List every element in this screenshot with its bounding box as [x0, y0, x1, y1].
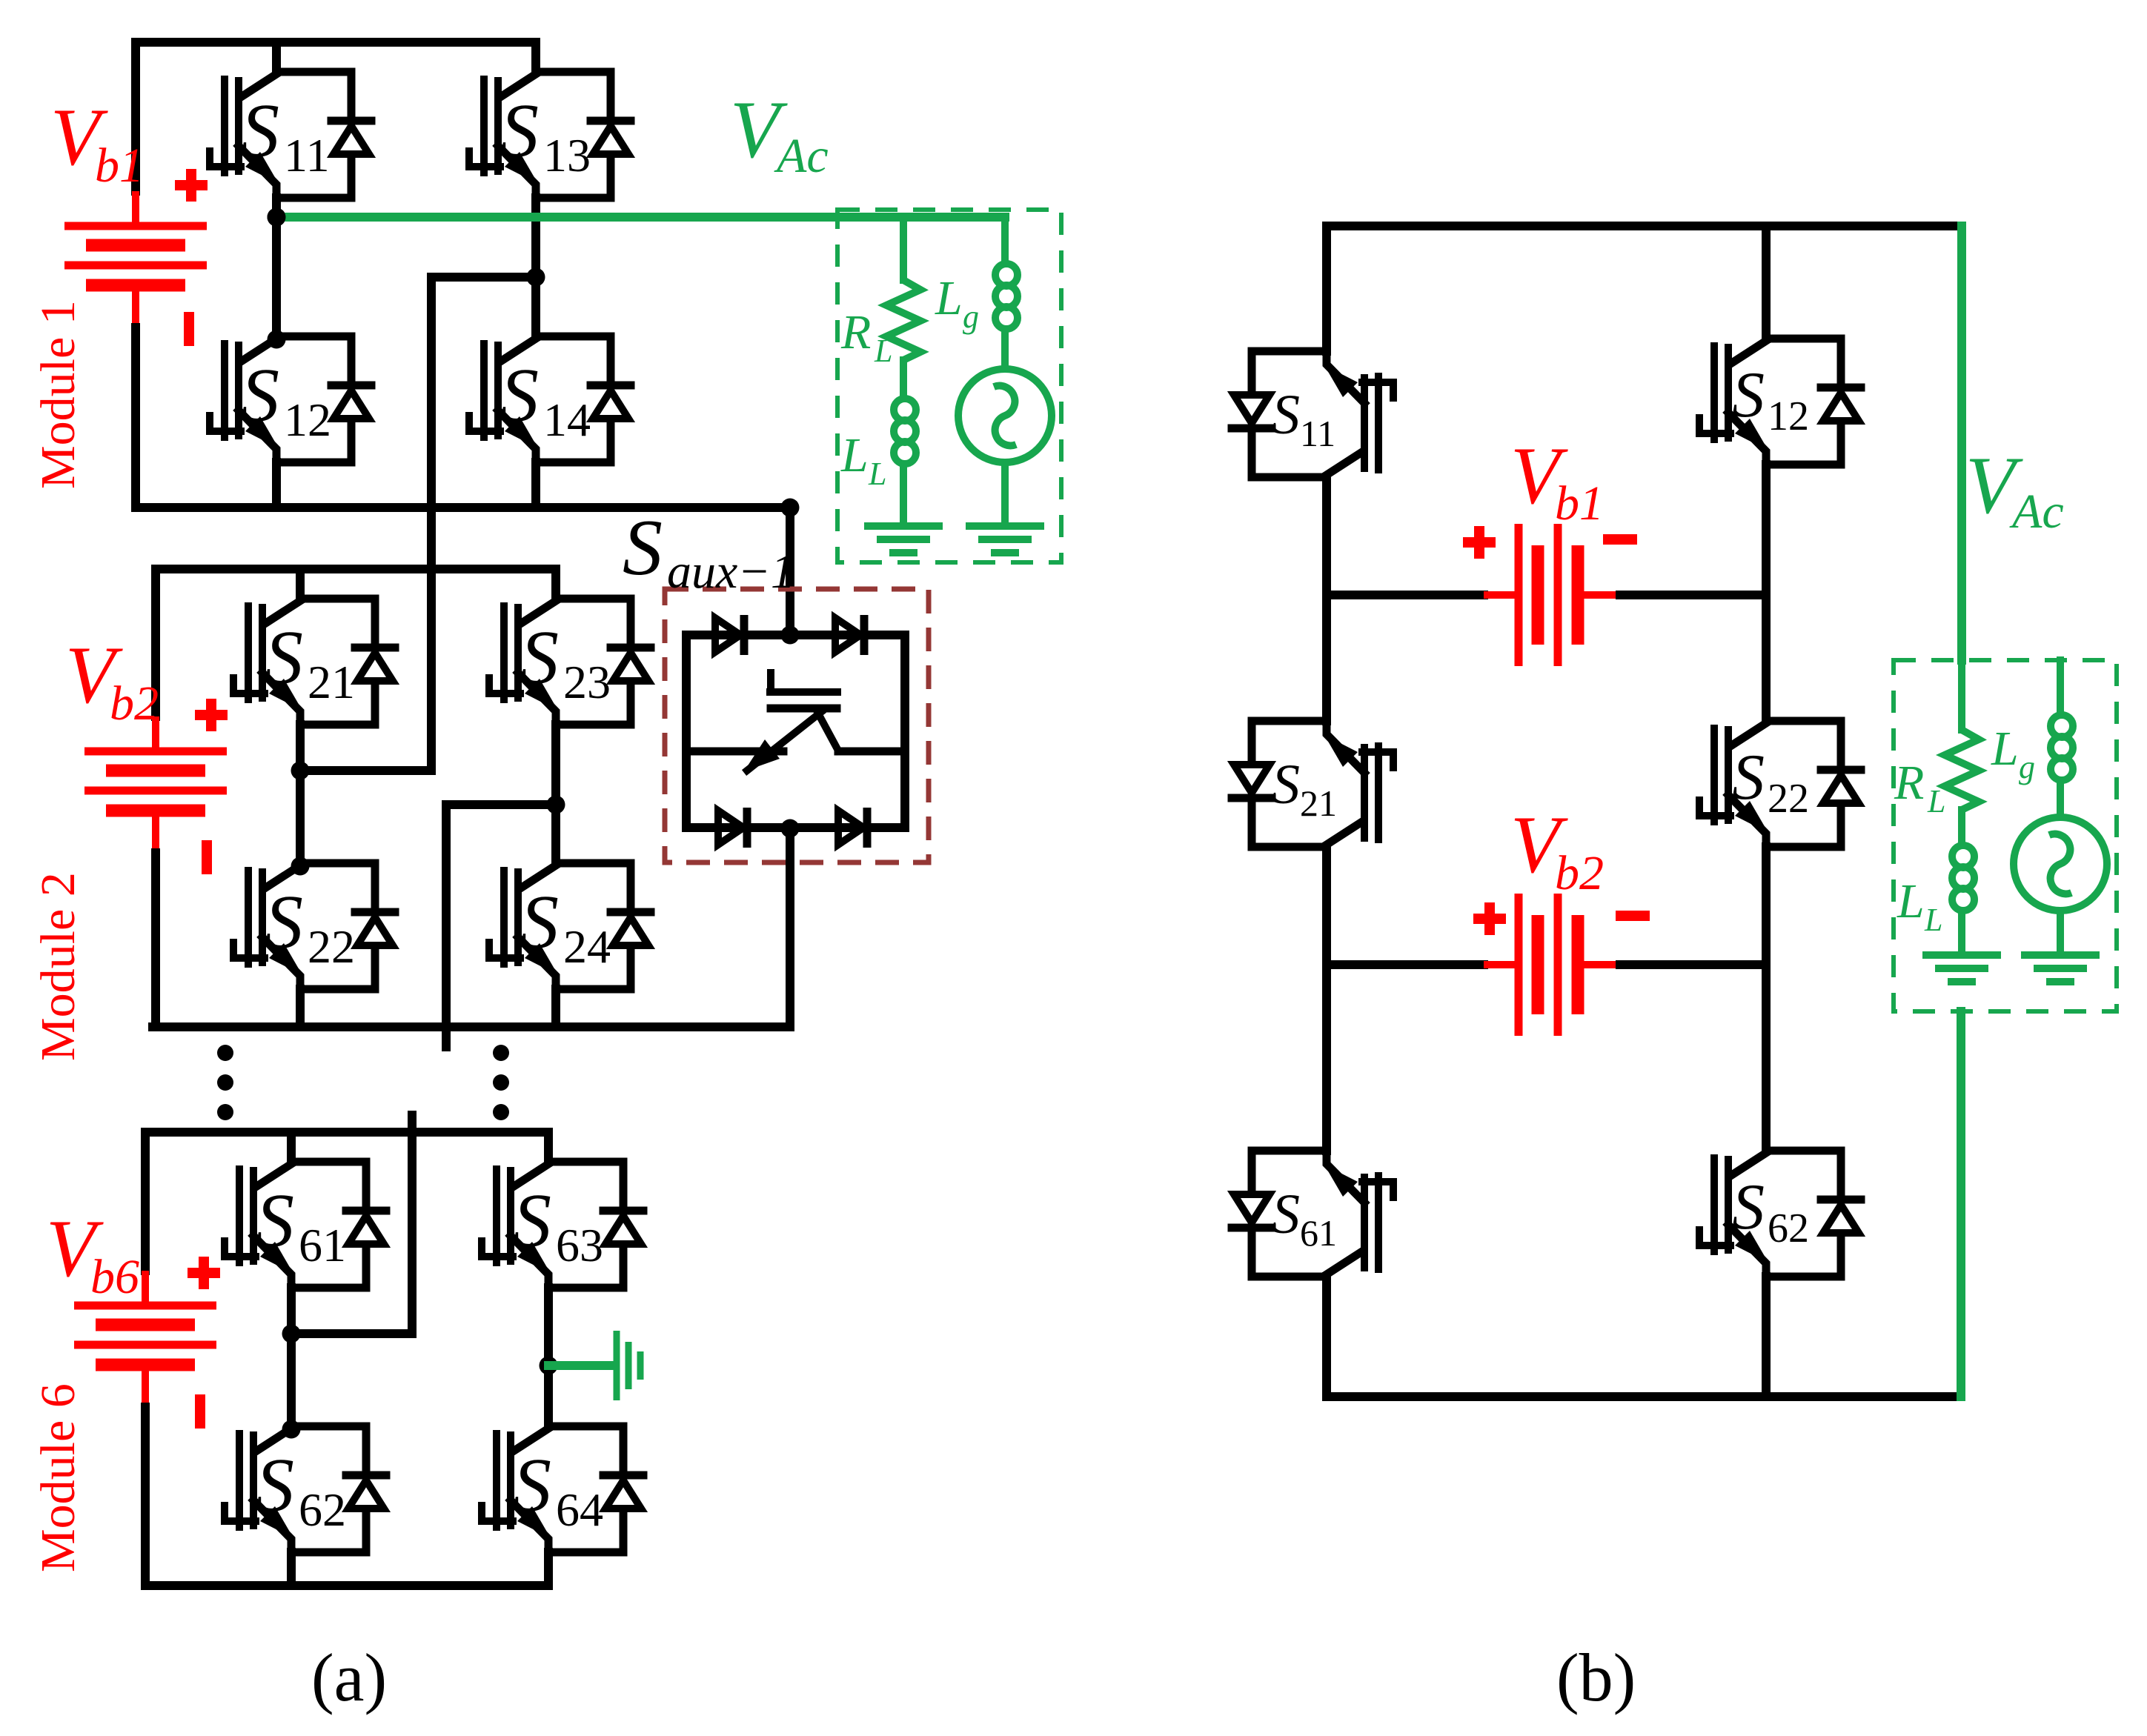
- wire (green): between R_L and L_L: [900, 360, 907, 393]
- svg-text:S: S: [1272, 754, 1300, 816]
- svg-text:S: S: [241, 353, 279, 438]
- transistor S61 (IGBT with antiparallel diode): [1232, 1151, 1393, 1277]
- wire: module 6 top rail: [145, 1128, 548, 1137]
- wire (green): source to ground (b): [2057, 911, 2064, 952]
- svg-text:64: 64: [556, 1483, 603, 1536]
- wire (green): L_g branch top: [1001, 217, 1009, 258]
- wire: module 2 top rail: [156, 565, 556, 573]
- svg-text:62: 62: [1768, 1205, 1809, 1251]
- svg-text:61: 61: [1300, 1212, 1337, 1254]
- ground (module 6 neutral): [617, 1331, 640, 1400]
- transistor S61 (IGBT with antiparallel diode): [225, 1162, 386, 1288]
- svg-text:12: 12: [1768, 393, 1809, 439]
- box: load dashed border (b): [1894, 660, 2117, 1011]
- svg-text:b2: b2: [1555, 846, 1604, 900]
- svg-text:23: 23: [563, 656, 611, 708]
- wire: [551, 725, 560, 863]
- svg-text:S: S: [1732, 742, 1765, 814]
- wire: module 1 left rail upper: [131, 42, 140, 191]
- svg-text:R: R: [840, 305, 871, 359]
- wire: battery 1 row right: [1620, 591, 1766, 599]
- svg-text:11: 11: [1300, 413, 1335, 454]
- svg-text:S: S: [265, 615, 303, 700]
- wire: [551, 569, 560, 599]
- svg-text:Ac: Ac: [774, 129, 829, 183]
- transistor S63 (IGBT with antiparallel diode): [482, 1162, 643, 1288]
- source V_Ac AC source: [958, 369, 1052, 462]
- transistor S62 (IGBT with antiparallel diode): [1699, 1151, 1861, 1277]
- ellipsis dot: [493, 1045, 509, 1061]
- battery Vb6: [74, 1271, 216, 1407]
- svg-text:62: 62: [299, 1483, 346, 1536]
- wire (green): R_L to L_L (b): [1958, 810, 1965, 839]
- wire: [272, 198, 281, 336]
- wire: battery 2 row right: [1620, 960, 1766, 969]
- svg-text:R: R: [1894, 756, 1924, 810]
- wire: [296, 569, 305, 599]
- diode aux bridge top-left: [715, 615, 744, 655]
- wire (green): R_L branch top: [900, 217, 907, 280]
- ground (b source branch): [2021, 955, 2100, 982]
- wire (green): source to ground: [1001, 462, 1009, 523]
- label - (b Vb2): [1616, 911, 1650, 921]
- wire: battery 1 row left: [1327, 591, 1484, 599]
- ellipsis dot: [217, 1045, 233, 1061]
- svg-text:S: S: [520, 615, 559, 700]
- node module1 output A: [268, 208, 286, 227]
- wire (green): load box to bottom rail (b): [1957, 1011, 1965, 1397]
- svg-text:13: 13: [543, 129, 591, 182]
- node module6 right midpoint (grounded): [540, 1357, 558, 1375]
- wire (green): L_g to source: [1001, 338, 1009, 369]
- node module1 negative rail to aux: [781, 499, 800, 517]
- node S12 collector: [268, 330, 286, 349]
- svg-text:11: 11: [284, 129, 330, 182]
- box: aux switch dashed border: [665, 589, 929, 862]
- svg-text:S: S: [513, 1443, 551, 1528]
- svg-text:63: 63: [556, 1219, 603, 1271]
- svg-text:L: L: [868, 456, 886, 492]
- node aux bridge bottom: [781, 819, 800, 838]
- svg-text:S: S: [256, 1443, 294, 1528]
- wire: aux bridge square: [686, 635, 905, 828]
- wire: module 1 top rail: [136, 38, 536, 47]
- inductor L_L (b): [1952, 839, 1974, 919]
- box: load dashed border (a): [837, 210, 1061, 562]
- node S62 collector: [282, 1420, 301, 1439]
- ellipsis dot: [217, 1074, 233, 1091]
- battery Vb1: [64, 191, 207, 327]
- transistor S12 (IGBT with antiparallel diode): [210, 336, 371, 462]
- wire: aux bottom feed: [786, 828, 794, 1027]
- transistor S21 (IGBT with antiparallel diode): [1232, 721, 1393, 847]
- wire (green): L_g to source (b): [2057, 789, 2064, 817]
- wire: link module1 right midpoint to module2 left midpoint: [300, 277, 536, 771]
- svg-text:L: L: [1927, 783, 1945, 819]
- wire: (b) right leg: [1762, 226, 1771, 1397]
- diode aux bridge bottom-right: [838, 808, 867, 848]
- svg-text:21: 21: [1300, 782, 1337, 824]
- ellipsis dot: [217, 1104, 233, 1120]
- wire: module 1 left rail lower: [131, 327, 140, 508]
- wire: aux top feed: [786, 508, 794, 635]
- svg-text:S: S: [623, 504, 663, 592]
- wire: module 2 bottom rail: [153, 1022, 790, 1031]
- ellipsis dot: [493, 1074, 509, 1091]
- wire: [544, 1288, 553, 1426]
- svg-text:S: S: [1732, 1171, 1765, 1243]
- wire (green): R_L branch top (b): [1958, 660, 1965, 730]
- svg-text:b2: b2: [110, 676, 159, 731]
- transistor S11 (IGBT with antiparallel diode): [210, 72, 371, 198]
- inductor L_g (b): [2051, 709, 2073, 789]
- svg-text:24: 24: [563, 920, 611, 973]
- wire: [272, 462, 281, 508]
- wire: link module6 left midpoint up to module 5: [291, 1115, 412, 1334]
- svg-text:S: S: [1732, 359, 1765, 431]
- transistor S_aux-1 IGBT (rotated): [686, 673, 905, 771]
- wire: module 6 left rail upper: [141, 1132, 150, 1271]
- node module2 left midpoint: [291, 762, 310, 780]
- wire: [544, 1132, 553, 1162]
- wire: [531, 198, 540, 336]
- battery Vb2: [84, 716, 227, 853]
- transistor S22 (IGBT with antiparallel diode): [233, 863, 395, 989]
- svg-text:Module 1: Module 1: [31, 300, 85, 489]
- label - (Vb6): [195, 1394, 205, 1429]
- wire (green): L_L to ground (b): [1958, 919, 1965, 952]
- svg-text:L: L: [1897, 874, 1925, 928]
- svg-text:14: 14: [543, 393, 591, 446]
- diode aux bridge bottom-left: [718, 808, 747, 848]
- wire: (b) bottom rail: [1327, 1392, 1961, 1401]
- svg-text:L: L: [874, 333, 892, 369]
- label - (Vb1): [184, 312, 194, 346]
- wire: module 2 left rail lower: [151, 853, 160, 1027]
- wire (green): output vertical (b): [1957, 226, 1966, 660]
- svg-text:b1: b1: [95, 139, 144, 193]
- svg-text:(b): (b): [1556, 1640, 1636, 1715]
- wire: link module2 right midpoint down to module 3: [446, 805, 556, 1047]
- svg-text:S: S: [1272, 1183, 1300, 1246]
- wire (green): L_L to ground: [900, 473, 907, 523]
- ellipsis dot: [493, 1104, 509, 1120]
- label + (b Vb1): [1463, 526, 1496, 559]
- ground (load branch): [864, 526, 943, 553]
- svg-text:S: S: [265, 879, 303, 965]
- svg-text:S: S: [513, 1178, 551, 1263]
- svg-text:L: L: [840, 428, 869, 482]
- wire: (b) left leg: [1322, 226, 1331, 1397]
- wire: module 1 bottom rail: [136, 503, 790, 512]
- label + (Vb2): [195, 699, 228, 731]
- source V_Ac AC source (b): [2014, 817, 2107, 911]
- svg-text:21: 21: [308, 656, 355, 708]
- svg-text:b1: b1: [1555, 476, 1604, 531]
- wire: module 2 left rail upper: [151, 569, 160, 716]
- transistor S64 (IGBT with antiparallel diode): [482, 1426, 643, 1552]
- ground (source branch): [966, 526, 1044, 553]
- wire (green): L_g branch (b): [2057, 660, 2064, 709]
- svg-text:S: S: [241, 88, 279, 173]
- node module1 output A (over green): [268, 208, 286, 227]
- label + (Vb1): [175, 169, 208, 202]
- node module1 right midpoint: [527, 268, 545, 287]
- svg-text:Ac: Ac: [2009, 485, 2064, 539]
- wire: battery 2 row left: [1327, 960, 1484, 969]
- label + (b Vb2): [1473, 902, 1506, 935]
- diode aux bridge top-right: [835, 615, 864, 655]
- svg-text:L: L: [1991, 722, 2019, 776]
- svg-text:22: 22: [1768, 776, 1809, 822]
- node aux bridge top: [781, 626, 800, 645]
- resistor R_L: [886, 280, 920, 360]
- svg-text:S: S: [500, 88, 539, 173]
- wire: module 6 bottom rail: [145, 1581, 548, 1590]
- battery Vb1: [1484, 524, 1620, 666]
- inductor L_L: [894, 393, 916, 473]
- svg-text:g: g: [963, 299, 979, 335]
- svg-text:(a): (a): [311, 1640, 387, 1715]
- svg-text:L: L: [1924, 902, 1942, 938]
- node module6 left midpoint: [282, 1325, 301, 1343]
- svg-text:22: 22: [308, 920, 355, 973]
- svg-text:Module 6: Module 6: [31, 1383, 85, 1572]
- svg-text:L: L: [935, 271, 963, 325]
- svg-text:S: S: [520, 879, 559, 965]
- wire: [287, 1552, 296, 1586]
- ground (b load branch): [1922, 955, 2001, 982]
- node S22 collector: [291, 857, 310, 876]
- transistor S62 (IGBT with antiparallel diode): [225, 1426, 386, 1552]
- wire: (b) top rail: [1327, 222, 1962, 230]
- wire: [287, 1288, 296, 1426]
- transistor S23 (IGBT with antiparallel diode): [489, 599, 651, 725]
- label - (b Vb1): [1603, 534, 1637, 545]
- transistor S14 (IGBT with antiparallel diode): [469, 336, 631, 462]
- svg-text:g: g: [2019, 749, 2035, 785]
- wire: [296, 989, 305, 1027]
- label - (Vb2): [202, 840, 212, 874]
- svg-text:b6: b6: [90, 1250, 139, 1304]
- wire: [544, 1552, 553, 1586]
- wire (green output): [276, 213, 1005, 222]
- wire: [531, 42, 540, 72]
- battery Vb2: [1484, 894, 1620, 1036]
- svg-text:12: 12: [284, 393, 331, 446]
- transistor S12 (IGBT with antiparallel diode): [1699, 339, 1861, 465]
- wire (green): module6 midpoint to ground: [548, 1361, 614, 1370]
- transistor S22 (IGBT with antiparallel diode): [1699, 721, 1861, 847]
- svg-text:61: 61: [299, 1219, 346, 1271]
- wire: [287, 1132, 296, 1162]
- inductor L_g: [995, 258, 1018, 338]
- label + (Vb6): [188, 1257, 220, 1289]
- svg-text:S: S: [500, 353, 539, 438]
- wire: [272, 42, 281, 72]
- wire: [296, 725, 305, 863]
- node module2 right midpoint: [547, 796, 565, 814]
- svg-text:S: S: [256, 1178, 294, 1263]
- wire: module 6 left rail lower: [141, 1407, 150, 1586]
- transistor S13 (IGBT with antiparallel diode): [469, 72, 631, 198]
- resistor R_L (b): [1945, 730, 1979, 810]
- transistor S21 (IGBT with antiparallel diode): [233, 599, 395, 725]
- svg-text:aux−1: aux−1: [667, 545, 795, 599]
- svg-text:S: S: [1272, 384, 1300, 446]
- transistor S24 (IGBT with antiparallel diode): [489, 863, 651, 989]
- wire: [551, 989, 560, 1027]
- svg-text:Module 2: Module 2: [31, 872, 85, 1061]
- transistor S11 (IGBT with antiparallel diode): [1232, 351, 1393, 477]
- wire: [531, 462, 540, 508]
